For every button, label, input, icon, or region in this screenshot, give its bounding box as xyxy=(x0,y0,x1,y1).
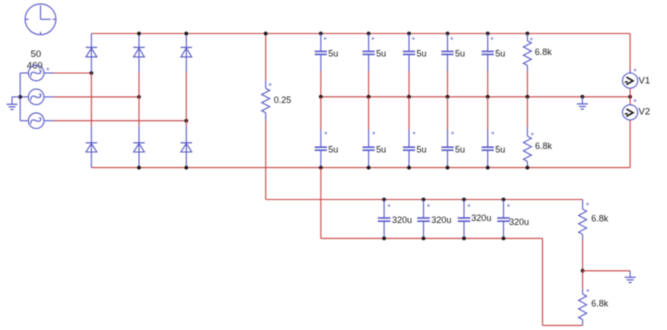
wire mid rail to C6 xyxy=(320,97,322,130)
label R2 value 6.8k xyxy=(535,47,553,57)
marker star C9 xyxy=(451,130,454,139)
node lower top rail / C11 xyxy=(382,198,386,202)
capacitor C7 5u (bottom row) xyxy=(363,130,375,168)
wire V2 to bottom rail xyxy=(629,120,631,167)
diode D6 (bottom row) xyxy=(181,126,192,168)
wire mid node to V2 xyxy=(629,97,631,105)
svg-text:320u: 320u xyxy=(431,215,451,225)
wire source left bus xyxy=(20,73,28,121)
marker star C6 xyxy=(324,130,327,139)
svg-text:320u: 320u xyxy=(509,217,529,227)
marker star R4 xyxy=(586,202,589,211)
wire C2 to mid rail xyxy=(368,71,370,97)
wire mid rail to C9 xyxy=(447,97,449,130)
label R5 value 6.8k xyxy=(591,298,609,308)
marker star C5 xyxy=(490,36,493,45)
ground (divider mid) xyxy=(625,271,636,283)
svg-text:*: * xyxy=(634,67,637,76)
marker star R5 xyxy=(586,288,589,297)
label C3 value 5u xyxy=(417,48,427,58)
node bottom rail / C7 xyxy=(367,166,371,170)
ac source VA (phase A) xyxy=(28,65,44,81)
svg-text:5u: 5u xyxy=(328,48,338,58)
svg-text:*: * xyxy=(371,36,374,45)
capacitor C8 5u (bottom row) xyxy=(403,130,415,168)
node mid rail / meters xyxy=(628,95,632,99)
marker star C14 xyxy=(507,203,510,212)
node phase C / D3 xyxy=(184,119,188,123)
node bottom rail / D5 xyxy=(137,166,141,170)
svg-text:*: * xyxy=(46,66,49,75)
resistor R2 6.8k (upper) xyxy=(523,34,531,72)
wire R2 to mid rail xyxy=(526,71,528,97)
wire top rail to V1 xyxy=(629,34,631,73)
label V2 xyxy=(639,106,651,117)
marker star C12 xyxy=(427,203,430,212)
wire phase to D4 cathode xyxy=(90,73,92,126)
svg-text:5u: 5u xyxy=(455,144,465,154)
node source neutral xyxy=(18,95,22,99)
svg-text:5u: 5u xyxy=(455,48,465,58)
marker star V1 xyxy=(634,67,637,76)
marker star C8 xyxy=(413,130,416,139)
node mid rail ground tap xyxy=(581,95,585,99)
svg-text:5u: 5u xyxy=(495,144,505,154)
wire phase to D5 cathode xyxy=(138,97,140,126)
wire mid rail to R3 xyxy=(526,97,528,128)
resistor R3 6.8k (lower) xyxy=(523,128,531,168)
node lower top rail / C14 xyxy=(502,198,506,202)
ground (mid rail) xyxy=(577,97,588,109)
svg-text:*: * xyxy=(450,36,453,45)
capacitor C13 320u xyxy=(458,200,471,239)
svg-text:0.25: 0.25 xyxy=(274,95,292,105)
node top rail / D3 xyxy=(184,32,188,36)
wire phase to D6 cathode xyxy=(185,121,187,126)
svg-text:*: * xyxy=(388,203,391,212)
svg-text:V1: V1 xyxy=(639,76,651,87)
label C1 value 5u xyxy=(328,48,338,58)
wire divider mid to R5 xyxy=(582,271,584,289)
wire C1 to mid rail xyxy=(320,71,322,97)
label C14 value 320u xyxy=(509,217,529,227)
wire D2 anode to phase xyxy=(138,72,140,97)
marker star C1 xyxy=(324,36,327,45)
node lower bottom rail / C13 xyxy=(462,237,466,241)
diode D2 (top row) xyxy=(133,34,144,73)
node phase B / D2 xyxy=(137,95,141,99)
ac source VC (phase C) xyxy=(28,113,44,129)
ground (source neutral) xyxy=(7,97,21,110)
svg-text:5u: 5u xyxy=(376,48,386,58)
wire C5 to mid rail xyxy=(487,71,489,97)
marker star C10 xyxy=(491,130,494,139)
diode D4 (bottom row) xyxy=(86,126,97,168)
marker star VA xyxy=(46,66,49,75)
svg-text:*: * xyxy=(324,130,327,139)
diode D5 (bottom row) xyxy=(133,126,144,168)
node top rail / R1 xyxy=(264,32,268,36)
label C12 value 320u xyxy=(431,215,451,225)
node top rail / C2 xyxy=(367,32,371,36)
svg-text:*: * xyxy=(530,36,533,45)
resistor R5 6.8k (divider bottom) xyxy=(579,289,587,326)
marker star C13 xyxy=(467,203,470,212)
svg-text:*: * xyxy=(427,203,430,212)
svg-text:*: * xyxy=(413,130,416,139)
node lower top rail / C12 xyxy=(422,198,426,202)
capacitor C5 5u (top row) xyxy=(482,34,494,72)
node lower bottom rail / C12 xyxy=(422,237,426,241)
clock icon (simulation control) xyxy=(25,4,56,35)
node top rail / D2 xyxy=(137,32,141,36)
node mid rail / C2 xyxy=(367,95,371,99)
node top rail / R2 xyxy=(526,32,530,36)
capacitor C6 5u (bottom row) xyxy=(315,130,327,168)
marker star R3 xyxy=(531,132,534,141)
wire R1 to lower bank xyxy=(266,120,583,199)
node mid rail / C4 xyxy=(446,95,450,99)
svg-text:*: * xyxy=(586,288,589,297)
node mid rail / R2 xyxy=(526,95,530,99)
capacitor C1 5u (top row) xyxy=(315,34,327,72)
label C6 value 5u xyxy=(328,144,338,154)
label C9 value 5u xyxy=(455,144,465,154)
node bottom rail / C6 xyxy=(319,166,323,170)
svg-text:*: * xyxy=(269,82,272,91)
capacitor C2 5u (top row) xyxy=(363,34,375,72)
node mid rail / C5 xyxy=(486,95,490,99)
node phase A / D1 xyxy=(90,71,94,75)
node bottom rail / D6 xyxy=(184,166,188,170)
svg-text:*: * xyxy=(507,203,510,212)
marker star V2 xyxy=(634,98,637,107)
label V1 xyxy=(639,76,651,87)
svg-text:320u: 320u xyxy=(471,213,491,223)
capacitor C9 5u (bottom row) xyxy=(441,130,453,168)
svg-text:*: * xyxy=(324,36,327,45)
svg-text:5u: 5u xyxy=(417,48,427,58)
svg-text:6.8k: 6.8k xyxy=(535,47,553,57)
marker star C2 xyxy=(371,36,374,45)
svg-text:*: * xyxy=(490,36,493,45)
wire lower bank return xyxy=(543,238,583,325)
resistor R4 6.8k (divider top) xyxy=(579,200,587,241)
wire top rail to R1 xyxy=(265,34,267,81)
svg-text:50: 50 xyxy=(31,49,42,60)
node bottom rail / R3 xyxy=(526,166,530,170)
wire C3 to mid rail xyxy=(408,71,410,97)
svg-text:*: * xyxy=(586,202,589,211)
node lower bottom rail / C11 xyxy=(382,237,386,241)
wire mid rail xyxy=(321,96,630,98)
capacitor C3 5u (top row) xyxy=(403,34,415,72)
label R4 value 6.8k xyxy=(591,214,609,224)
node lower top rail / C13 xyxy=(462,198,466,202)
resistor R1 0.25 xyxy=(262,81,270,121)
label C11 value 320u xyxy=(392,215,412,225)
svg-text:6.8k: 6.8k xyxy=(591,298,609,308)
label C10 value 5u xyxy=(495,144,505,154)
node bottom rail / C9 xyxy=(446,166,450,170)
svg-text:6.8k: 6.8k xyxy=(535,141,553,151)
node bottom rail / C10 xyxy=(486,166,490,170)
capacitor C12 320u xyxy=(417,200,430,239)
wire bottom DC rail xyxy=(91,167,630,169)
marker star C7 xyxy=(372,130,375,139)
wire divider mid to ground xyxy=(583,270,631,272)
label 50 (frequency) xyxy=(31,49,42,60)
wire phase C xyxy=(44,120,187,122)
svg-text:6.8k: 6.8k xyxy=(591,214,609,224)
wire phase B xyxy=(44,96,139,98)
marker star C11 xyxy=(388,203,391,212)
label R1 value 0.25 xyxy=(274,95,292,105)
svg-text:*: * xyxy=(451,130,454,139)
ac source VB (phase B) xyxy=(28,89,44,105)
capacitor C10 5u (bottom row) xyxy=(482,130,494,168)
wire mid rail to C8 xyxy=(408,97,410,130)
svg-text:*: * xyxy=(467,203,470,212)
node mid rail / C3 xyxy=(407,95,411,99)
capacitor C4 5u (top row) xyxy=(441,34,453,72)
label C4 value 5u xyxy=(455,48,465,58)
svg-text:320u: 320u xyxy=(392,215,412,225)
marker star R2 xyxy=(530,36,533,45)
marker star C3 xyxy=(412,36,415,45)
svg-text:*: * xyxy=(372,130,375,139)
marker star C4 xyxy=(450,36,453,45)
svg-text:*: * xyxy=(531,132,534,141)
capacitor C11 320u xyxy=(378,200,391,239)
diode D1 (top row) xyxy=(86,34,97,73)
node mid rail / C1 xyxy=(319,95,323,99)
node divider mid xyxy=(581,269,585,273)
wire R4 to divider mid xyxy=(582,240,584,271)
wire C4 to mid rail xyxy=(447,71,449,97)
wire mid rail to C7 xyxy=(368,97,370,130)
node bottom rail / C8 xyxy=(407,166,411,170)
wire phase A xyxy=(44,72,92,74)
svg-text:5u: 5u xyxy=(376,144,386,154)
voltmeter V1 xyxy=(623,73,638,88)
svg-text:5u: 5u xyxy=(417,144,427,154)
label C7 value 5u xyxy=(376,144,386,154)
label C2 value 5u xyxy=(376,48,386,58)
capacitor C14 320u xyxy=(497,200,510,239)
wire top DC rail xyxy=(91,33,630,35)
svg-text:V2: V2 xyxy=(639,106,651,117)
node lower bottom rail / C14 xyxy=(502,237,506,241)
node top rail / C5 xyxy=(486,32,490,36)
node top rail / C4 xyxy=(446,32,450,36)
svg-text:5u: 5u xyxy=(495,48,505,58)
wire V1 to mid node xyxy=(629,89,631,97)
node top rail / C3 xyxy=(407,32,411,36)
wire mid rail to C10 xyxy=(487,97,489,130)
svg-text:5u: 5u xyxy=(328,144,338,154)
diode D3 (top row) xyxy=(181,34,192,73)
wire bottom rail to lower bank xyxy=(321,168,543,239)
label R3 value 6.8k xyxy=(535,141,553,151)
voltmeter V2 xyxy=(623,105,638,120)
label 460 (voltage) xyxy=(27,61,43,72)
label C5 value 5u xyxy=(495,48,505,58)
svg-text:*: * xyxy=(412,36,415,45)
label C8 value 5u xyxy=(417,144,427,154)
marker star R1 xyxy=(269,82,272,91)
node top rail / C1 xyxy=(319,32,323,36)
wire D3 anode to phase xyxy=(185,72,187,121)
label C13 value 320u xyxy=(471,213,491,223)
svg-text:*: * xyxy=(491,130,494,139)
